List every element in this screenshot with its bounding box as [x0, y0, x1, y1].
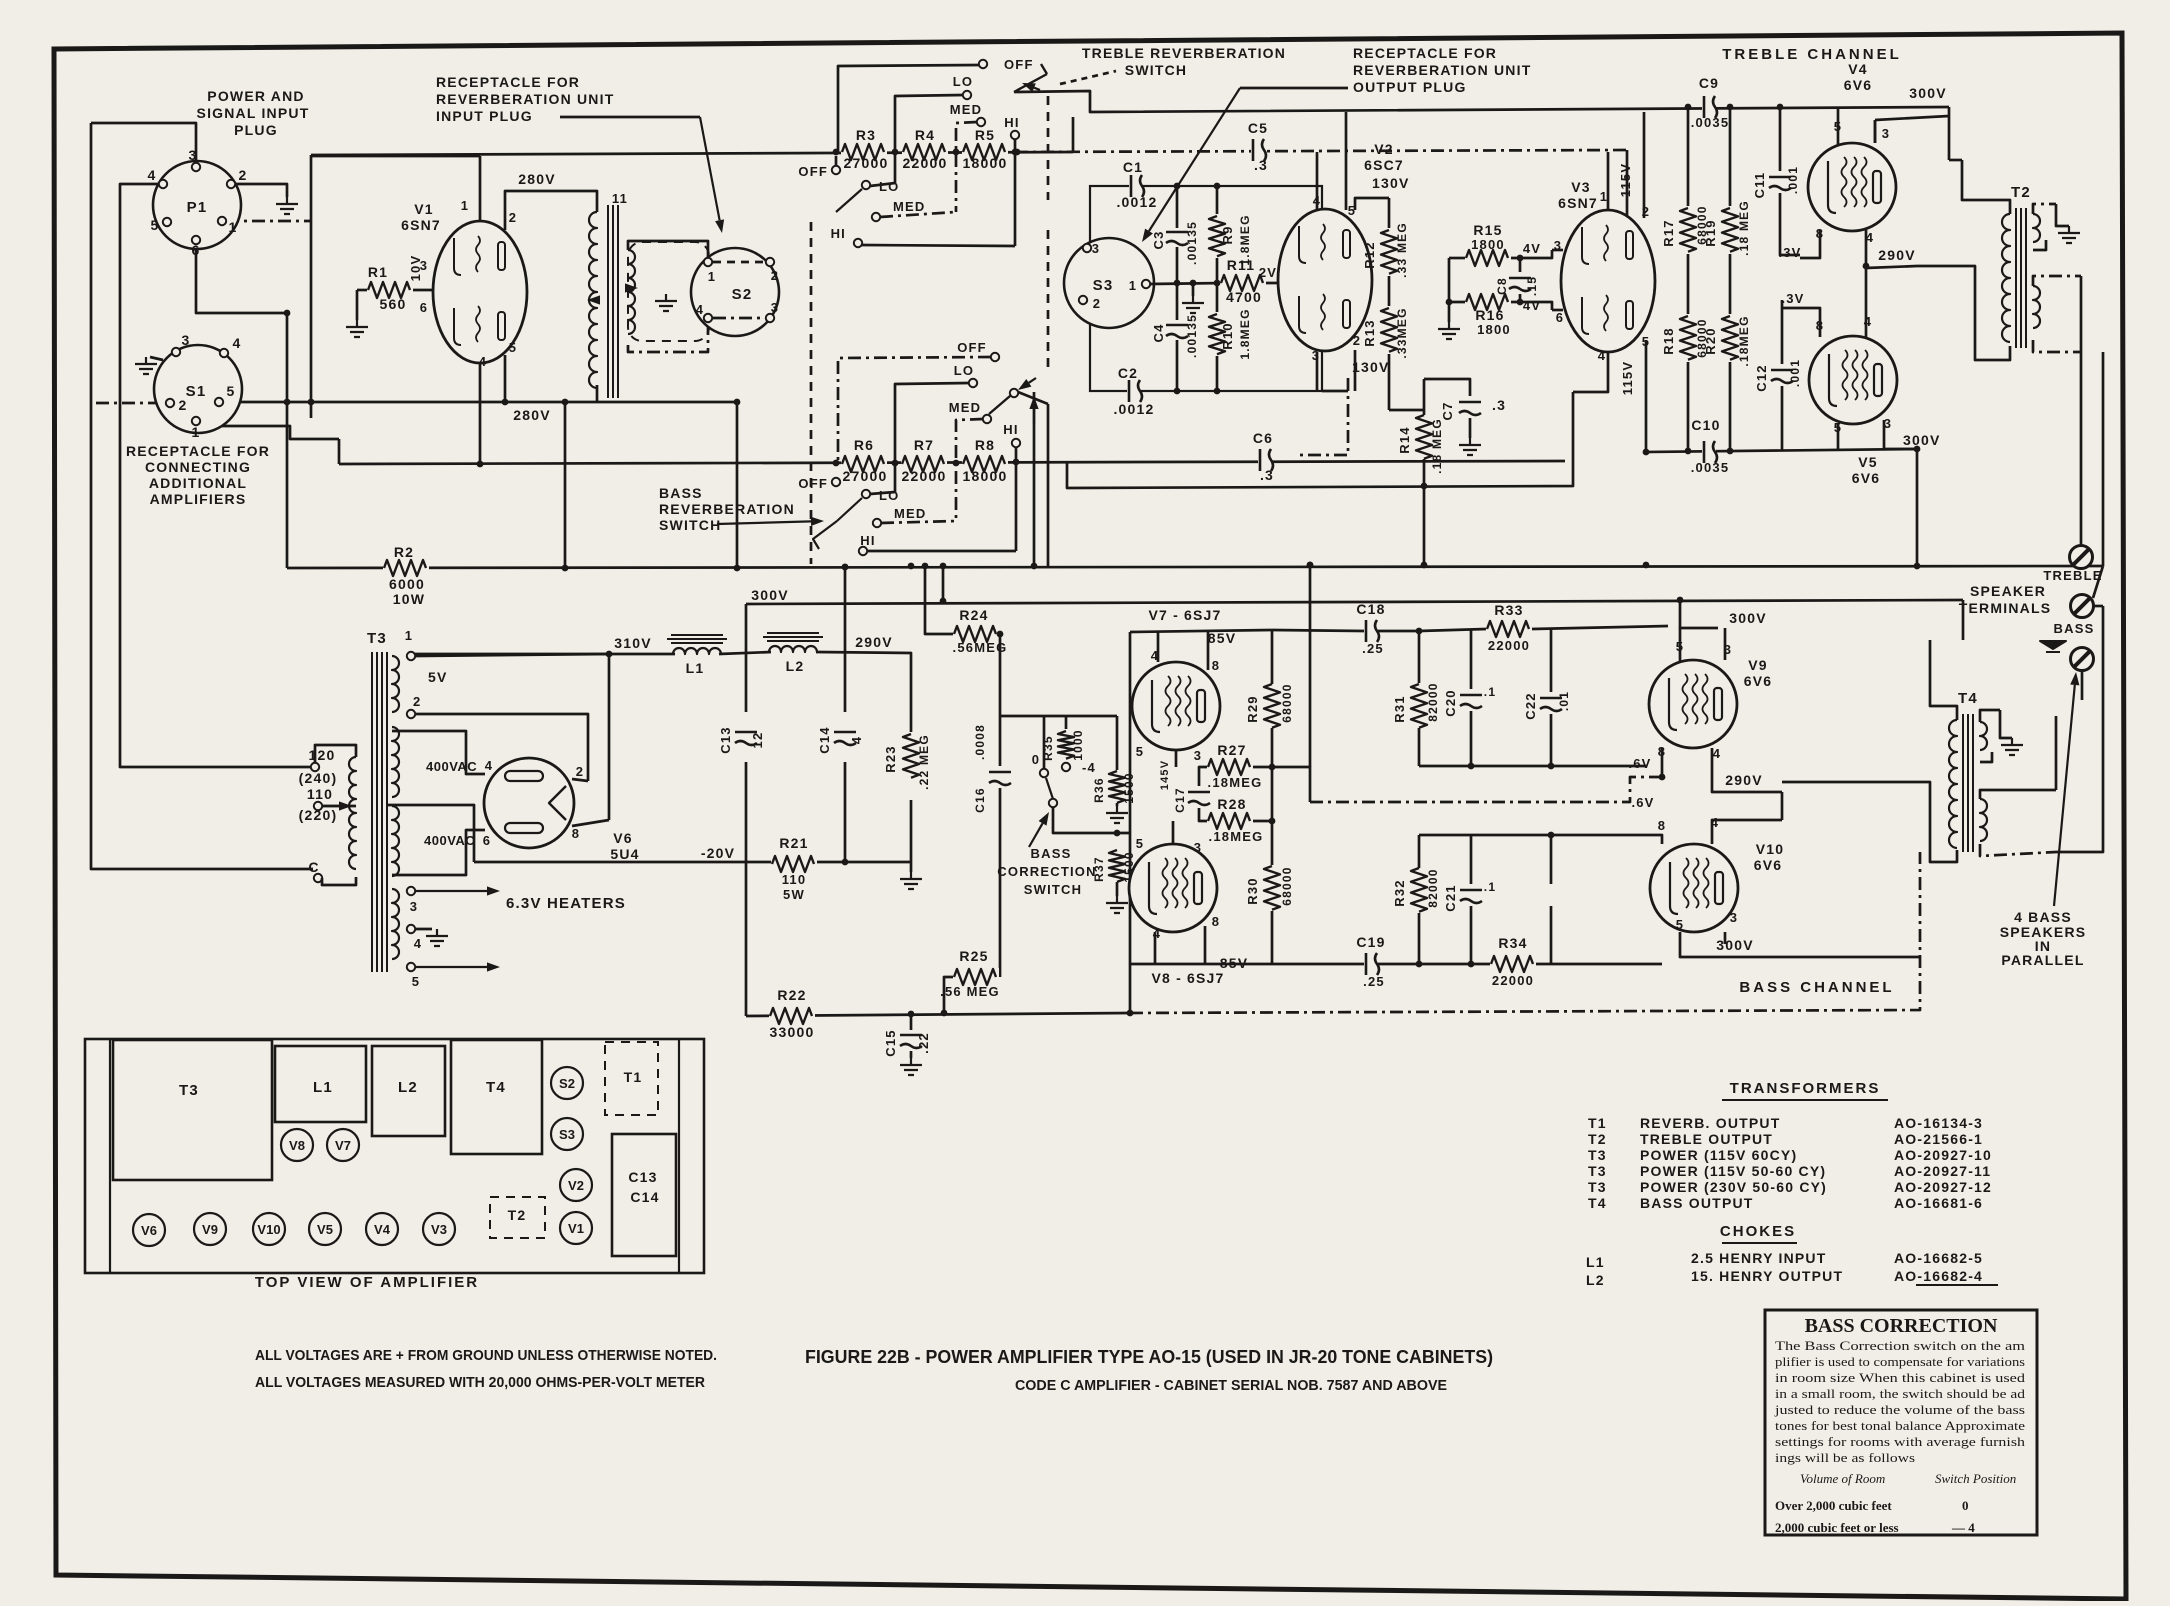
wire — [357, 289, 372, 292]
resistor R16 — [1465, 293, 1511, 311]
svg-text:(240): (240) — [299, 770, 338, 786]
wire — [1449, 258, 1465, 302]
svg-text:1.8MEG: 1.8MEG — [1238, 308, 1252, 359]
tube V9 6V6 — [1649, 660, 1737, 748]
wire — [1129, 632, 1132, 1013]
wire — [1837, 424, 1840, 451]
svg-text:T3: T3 — [1588, 1163, 1607, 1179]
wire — [1962, 600, 1965, 640]
svg-text:RECEPTACLE FOR: RECEPTACLE FOR — [126, 443, 270, 459]
capacitor C7 — [1458, 400, 1482, 414]
svg-text:RECEPTACLE FOR: RECEPTACLE FOR — [436, 74, 580, 90]
svg-text:.3: .3 — [1254, 157, 1268, 173]
svg-text:V4: V4 — [1848, 61, 1868, 77]
svg-text:3: 3 — [771, 300, 779, 315]
wire — [1418, 631, 1421, 684]
svg-text:L1: L1 — [313, 1079, 333, 1096]
tube position V4 — [366, 1213, 398, 1245]
svg-text:TREBLE REVERBERATION: TREBLE REVERBERATION — [1082, 45, 1286, 61]
capacitor C3 — [1165, 230, 1189, 244]
wire — [1679, 600, 1682, 628]
svg-text:400VAC: 400VAC — [424, 833, 475, 848]
svg-text:.0035: .0035 — [1691, 460, 1730, 475]
svg-text:.0008: .0008 — [973, 724, 987, 760]
svg-text:C13: C13 — [628, 1169, 657, 1185]
svg-text:C19: C19 — [1356, 934, 1385, 950]
svg-text:TREBLE CHANNEL: TREBLE CHANNEL — [1722, 46, 1902, 63]
svg-text:.6V: .6V — [1631, 795, 1654, 810]
wire — [232, 184, 287, 197]
wire — [1449, 257, 1465, 260]
wire — [1273, 963, 1364, 966]
wire 310V — [411, 653, 675, 656]
wire — [1980, 844, 2056, 856]
svg-text:1800: 1800 — [1477, 322, 1511, 337]
svg-text:R33: R33 — [1494, 602, 1523, 618]
svg-text:R36: R36 — [1092, 777, 1106, 803]
wire — [1550, 629, 1553, 692]
svg-text:120: 120 — [309, 747, 336, 763]
capacitor C8 — [1508, 276, 1532, 290]
ground — [426, 929, 448, 946]
svg-text:R35: R35 — [1041, 735, 1055, 761]
wire — [719, 652, 771, 654]
wire — [2033, 340, 2081, 352]
wire pin8 — [572, 820, 609, 826]
svg-text:R34: R34 — [1498, 935, 1527, 951]
wire — [1930, 640, 1957, 720]
wire 280V bottom — [504, 355, 507, 402]
svg-text:R10: R10 — [1220, 322, 1235, 349]
svg-text:in a small room, the switch sh: in a small room, the switch should be ad — [1775, 1387, 2026, 1401]
svg-text:V7: V7 — [335, 1138, 351, 1153]
resistor R25 — [953, 968, 999, 986]
svg-text:ADDITIONAL: ADDITIONAL — [149, 475, 247, 491]
svg-text:2: 2 — [771, 268, 779, 283]
svg-text:.0035: .0035 — [1691, 115, 1730, 130]
wire dash-dot bass bus — [1130, 852, 1920, 1013]
svg-text:.01: .01 — [1557, 691, 1571, 711]
svg-text:.18 MEG: .18 MEG — [1737, 200, 1751, 256]
svg-text:27000: 27000 — [844, 155, 889, 171]
svg-text:T3: T3 — [1588, 1179, 1607, 1195]
svg-text:300V: 300V — [1716, 937, 1754, 953]
wire — [999, 634, 1000, 766]
wire dashed boundary — [810, 222, 813, 564]
wire primary bottom — [1917, 266, 2010, 360]
svg-text:T2: T2 — [2011, 184, 2031, 201]
svg-text:5: 5 — [1676, 917, 1684, 932]
wire — [1204, 926, 1207, 964]
wire — [1470, 835, 1473, 884]
wire — [1551, 765, 1647, 768]
svg-text:.0012: .0012 — [1113, 401, 1154, 417]
svg-text:6SC7: 6SC7 — [1364, 157, 1404, 173]
svg-text:T3: T3 — [179, 1082, 199, 1099]
wire — [942, 566, 945, 601]
svg-text:6: 6 — [1556, 310, 1564, 325]
ground — [276, 197, 298, 214]
svg-text:4700: 4700 — [1226, 289, 1262, 305]
svg-text:C13: C13 — [718, 726, 733, 753]
wire — [844, 566, 847, 712]
svg-text:5W: 5W — [783, 887, 805, 902]
capacitor C5 — [1251, 138, 1265, 162]
wire — [1647, 835, 1662, 844]
svg-text:82000: 82000 — [1426, 868, 1440, 907]
wire pin2 — [572, 779, 588, 781]
svg-text:22000: 22000 — [903, 155, 948, 171]
wire — [1626, 150, 1629, 247]
wire bus 300V — [746, 600, 1963, 604]
ground — [135, 357, 157, 374]
svg-text:.00135: .00135 — [1185, 314, 1199, 358]
wire — [1065, 716, 1068, 729]
wire — [1388, 391, 1391, 410]
wire — [1053, 807, 1130, 833]
wire — [315, 745, 356, 763]
svg-text:HI: HI — [860, 533, 875, 548]
svg-text:22000: 22000 — [1492, 973, 1534, 988]
svg-text:C8: C8 — [1495, 277, 1509, 295]
wire — [1172, 821, 1175, 844]
tube position S2 — [551, 1067, 583, 1099]
svg-text:SWITCH: SWITCH — [659, 517, 721, 533]
svg-text:PLUG: PLUG — [234, 122, 278, 138]
wire — [1272, 767, 1310, 802]
svg-text:V7 - 6SJ7: V7 - 6SJ7 — [1148, 607, 1221, 623]
svg-text:POWER (230V 50-60 CY): POWER (230V 50-60 CY) — [1640, 1179, 1827, 1195]
svg-text:BASS CHANNEL: BASS CHANNEL — [1739, 979, 1894, 996]
svg-text:18000: 18000 — [963, 155, 1008, 171]
tube V10 6V6 — [1650, 844, 1738, 932]
svg-text:C11: C11 — [1752, 172, 1767, 199]
tube V7 6SJ7 — [1132, 662, 1220, 750]
wire 290V — [1866, 230, 1917, 268]
wire — [1687, 362, 1690, 450]
wire — [835, 156, 838, 166]
wire — [1779, 107, 1782, 171]
ground — [1459, 438, 1481, 455]
wire — [1418, 728, 1421, 766]
tube position V6 — [133, 1214, 165, 1246]
svg-text:0: 0 — [1032, 752, 1040, 767]
wire — [479, 156, 482, 222]
svg-text:4: 4 — [479, 354, 487, 369]
wire — [895, 95, 963, 183]
svg-text:C16: C16 — [973, 787, 987, 813]
wire — [1199, 808, 1207, 821]
svg-text:MED: MED — [893, 199, 926, 214]
tube position V1 — [560, 1212, 592, 1244]
wire — [1354, 350, 1357, 391]
wire — [2055, 716, 2058, 790]
tube V8 6SJ7 — [1129, 844, 1217, 932]
svg-text:.18MEG: .18MEG — [1209, 829, 1264, 844]
choke L2 — [769, 646, 817, 652]
wire T3 to V6 pin6 — [392, 830, 485, 875]
wire — [1875, 116, 1949, 120]
svg-text:6SN7: 6SN7 — [401, 217, 441, 233]
wire 115V row — [1646, 344, 1917, 452]
wire 290V — [816, 652, 911, 712]
wire — [1418, 912, 1421, 964]
resistor R9 — [1208, 215, 1226, 257]
svg-text:V5: V5 — [317, 1222, 333, 1237]
wire — [91, 123, 196, 162]
wire — [1015, 447, 1018, 551]
wire leader — [1240, 87, 1348, 90]
svg-text:R20: R20 — [1703, 327, 1718, 354]
svg-text:8: 8 — [1212, 914, 1220, 929]
resistor R18 — [1679, 315, 1697, 361]
svg-text:REVERB. OUTPUT: REVERB. OUTPUT — [1640, 1115, 1780, 1131]
wire 85V row — [1130, 630, 1273, 632]
resistor R17 — [1679, 207, 1697, 253]
svg-text:130V: 130V — [1352, 359, 1390, 375]
wire P1 pin6 to R2 — [196, 244, 287, 568]
svg-text:2.5 HENRY INPUT: 2.5 HENRY INPUT — [1691, 1250, 1826, 1266]
svg-text:3: 3 — [1194, 748, 1202, 763]
svg-text:CHOKES: CHOKES — [1720, 1223, 1796, 1240]
wire — [564, 402, 567, 568]
resistor R13 — [1380, 307, 1398, 353]
svg-text:4V: 4V — [1523, 298, 1541, 313]
svg-text:Switch Position: Switch Position — [1935, 1471, 2016, 1486]
wire — [910, 712, 913, 732]
svg-text:L2: L2 — [398, 1079, 418, 1096]
svg-text:OFF: OFF — [957, 340, 987, 355]
tube position S3 — [551, 1118, 583, 1150]
wire — [1423, 379, 1426, 415]
svg-text:R6: R6 — [854, 437, 874, 453]
svg-text:.1: .1 — [1484, 685, 1496, 699]
wire — [910, 800, 913, 862]
wire — [1423, 459, 1426, 565]
wire — [1273, 630, 1364, 631]
svg-text:R25: R25 — [959, 948, 988, 964]
svg-text:ALL VOLTAGES ARE + FROM GROUND: ALL VOLTAGES ARE + FROM GROUND UNLESS OT… — [255, 1347, 717, 1364]
wire — [1018, 392, 1048, 404]
svg-text:10W: 10W — [393, 591, 425, 607]
svg-text:R13: R13 — [1362, 319, 1377, 346]
svg-text:V9: V9 — [1748, 657, 1768, 673]
svg-text:C9: C9 — [1699, 75, 1719, 91]
svg-text:V1: V1 — [568, 1221, 584, 1236]
wire .3V — [1780, 193, 1800, 255]
svg-text:RECEPTACLE FOR: RECEPTACLE FOR — [1353, 45, 1497, 61]
svg-text:S3: S3 — [559, 1127, 575, 1142]
wire — [870, 183, 895, 186]
svg-text:C3: C3 — [1151, 230, 1166, 249]
tube V4 6V6 — [1808, 143, 1896, 231]
tube position V5 — [309, 1213, 341, 1245]
svg-text:AO-16134-3: AO-16134-3 — [1894, 1115, 1983, 1131]
svg-text:Volume of Room: Volume of Room — [1800, 1471, 1885, 1486]
svg-text:MED: MED — [949, 400, 982, 415]
wire — [1043, 716, 1046, 769]
resistor R36 — [1108, 770, 1126, 804]
svg-text:C4: C4 — [1151, 323, 1166, 342]
capacitor C10 — [1702, 440, 1716, 464]
svg-text:R22: R22 — [777, 987, 806, 1003]
svg-text:V2: V2 — [1374, 141, 1394, 157]
tube position V2 — [560, 1169, 592, 1201]
wire — [1470, 711, 1473, 766]
svg-text:18000: 18000 — [963, 468, 1008, 484]
resistor R31 — [1410, 683, 1428, 729]
wire — [1309, 600, 1312, 767]
resistor R10 — [1208, 313, 1226, 355]
choke L1 — [673, 648, 721, 654]
wire — [1072, 117, 1075, 152]
wire — [713, 317, 765, 320]
svg-text:4: 4 — [485, 758, 493, 773]
svg-text:C17: C17 — [1173, 787, 1187, 813]
svg-text:5: 5 — [227, 383, 236, 399]
wire — [2000, 710, 2012, 738]
svg-text:R32: R32 — [1392, 879, 1407, 906]
svg-text:settings for rooms with av: settings for rooms with average furnish — [1775, 1435, 2026, 1449]
svg-text:AO-16681-6: AO-16681-6 — [1894, 1195, 1983, 1211]
wire — [1216, 356, 1219, 391]
svg-text:POWER (115V 60CY): POWER (115V 60CY) — [1640, 1147, 1797, 1163]
svg-text:8: 8 — [572, 826, 580, 841]
bass common arrow — [2040, 641, 2066, 649]
svg-text:8: 8 — [1658, 818, 1666, 833]
svg-text:2: 2 — [413, 694, 421, 709]
wire — [1469, 418, 1472, 438]
screw terminal — [2071, 595, 2094, 618]
wire V2 pin5 — [1345, 112, 1348, 210]
svg-text:.18MEG: .18MEG — [1208, 775, 1263, 790]
svg-text:T3: T3 — [367, 630, 387, 647]
wire — [2093, 566, 2103, 598]
svg-text:SPEAKER: SPEAKER — [1970, 583, 2046, 599]
wire — [1116, 882, 1119, 896]
svg-text:33000: 33000 — [770, 1024, 815, 1040]
svg-text:3: 3 — [1194, 840, 1202, 855]
svg-text:.33MEG: .33MEG — [1395, 307, 1409, 358]
tube V3 6SN7 — [1561, 210, 1655, 352]
svg-text:R2: R2 — [394, 544, 414, 560]
wire — [910, 862, 913, 872]
resistor R4 — [902, 143, 948, 161]
svg-text:300V: 300V — [751, 587, 789, 603]
svg-text:.6V: .6V — [1628, 756, 1651, 771]
svg-text:POWER (115V 50-60 CY): POWER (115V 50-60 CY) — [1640, 1163, 1826, 1179]
wire — [1419, 629, 1486, 631]
svg-text:OFF: OFF — [798, 476, 828, 491]
wire — [1687, 254, 1690, 314]
wire — [1300, 378, 1348, 455]
svg-text:290V: 290V — [855, 634, 893, 650]
svg-text:4: 4 — [849, 736, 864, 744]
wire — [1389, 409, 1424, 412]
svg-text:MED: MED — [894, 506, 927, 521]
svg-text:5U4: 5U4 — [610, 846, 639, 862]
svg-text:R21: R21 — [779, 835, 808, 851]
svg-text:68000: 68000 — [1280, 866, 1294, 905]
wire — [1216, 258, 1219, 283]
svg-text:4: 4 — [696, 302, 704, 317]
wire — [408, 289, 434, 292]
svg-text:0: 0 — [1962, 1498, 1969, 1513]
wire — [1033, 392, 1036, 566]
wire — [867, 550, 1016, 553]
wire — [479, 363, 482, 464]
wire — [2056, 606, 2103, 852]
wire leader — [1060, 71, 1116, 84]
svg-text:FIGURE 22B - POWER AMPLIFIER T: FIGURE 22B - POWER AMPLIFIER TYPE AO-15 … — [805, 1347, 1493, 1367]
ground — [2001, 738, 2023, 755]
svg-text:T3: T3 — [1588, 1147, 1607, 1163]
svg-text:6000: 6000 — [389, 576, 425, 592]
svg-text:T2: T2 — [1588, 1131, 1607, 1147]
svg-text:AMPLIFIERS: AMPLIFIERS — [150, 491, 247, 507]
resistor R27 — [1207, 758, 1253, 776]
svg-text:.18MEG: .18MEG — [1737, 315, 1751, 366]
svg-text:.15: .15 — [1525, 276, 1539, 296]
wire — [1157, 632, 1160, 662]
svg-text:12: 12 — [750, 732, 765, 749]
svg-text:.0012: .0012 — [1116, 194, 1157, 210]
wire — [1154, 932, 1157, 964]
resistor R30 — [1263, 865, 1281, 911]
svg-text:1: 1 — [708, 269, 716, 284]
svg-text:C1: C1 — [1123, 159, 1143, 175]
wire top 300V bus — [1014, 91, 1949, 112]
svg-text:V5: V5 — [1858, 454, 1878, 470]
ground — [1438, 322, 1460, 339]
wire — [322, 877, 356, 885]
wire — [1424, 379, 1470, 396]
wire S3 to R11 — [1150, 283, 1225, 284]
capacitor C2 — [1127, 379, 1141, 403]
svg-text:6V6: 6V6 — [1744, 673, 1773, 689]
wire primary top — [1962, 160, 2010, 214]
svg-text:300V: 300V — [1729, 610, 1767, 626]
svg-text:AO-16682-4: AO-16682-4 — [1894, 1268, 1983, 1284]
svg-text:OFF: OFF — [1004, 57, 1034, 72]
wire — [1865, 266, 1868, 337]
wire — [1729, 107, 1732, 206]
resistor R14 — [1415, 414, 1433, 460]
capacitor C1 — [1129, 174, 1143, 198]
receptacle S1 — [154, 345, 242, 433]
wire — [1470, 906, 1473, 964]
wire — [862, 245, 1015, 246]
wire .6V bus — [1310, 777, 1662, 802]
svg-text:280V: 280V — [518, 171, 556, 187]
svg-text:.22: .22 — [916, 1032, 931, 1054]
wire dash-dot from P1 pin1 — [226, 220, 311, 223]
svg-text:C7: C7 — [1440, 401, 1455, 420]
wire — [1192, 283, 1195, 296]
tube V5 6V6 — [1809, 336, 1897, 424]
resistor R19 — [1721, 207, 1739, 253]
wire — [1322, 390, 1348, 393]
svg-text:22000: 22000 — [1488, 638, 1530, 653]
svg-text:R3: R3 — [856, 127, 876, 143]
wire — [596, 385, 599, 402]
svg-text:115V: 115V — [1618, 163, 1633, 197]
svg-text:68000: 68000 — [1280, 683, 1294, 722]
wire — [1175, 750, 1178, 767]
svg-text:1: 1 — [192, 424, 201, 440]
resistor R21 — [771, 855, 817, 873]
wire — [1645, 340, 1648, 344]
